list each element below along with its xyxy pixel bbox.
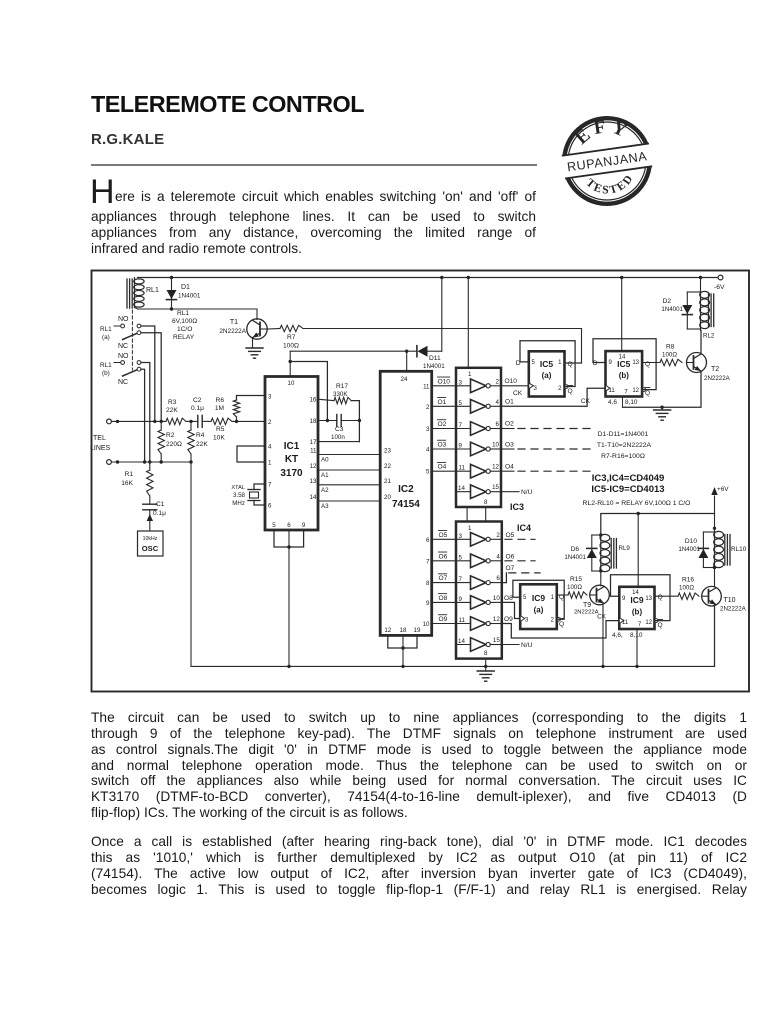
svg-text:100Ω: 100Ω <box>662 352 677 359</box>
svg-text:100Ω: 100Ω <box>283 343 299 350</box>
relay RL10 <box>714 531 747 568</box>
svg-text:OSC: OSC <box>142 544 159 553</box>
label IC9b CK <box>597 613 607 620</box>
wire IC5b pin7 to ground <box>623 406 664 409</box>
label IC9a Qbar <box>559 619 564 629</box>
svg-text:7: 7 <box>459 422 463 429</box>
svg-text:1N4001: 1N4001 <box>423 363 445 370</box>
label IC5b CK <box>581 398 591 405</box>
wire T1 base <box>267 328 280 331</box>
wire IC9a Qbar feedback <box>513 580 564 621</box>
svg-text:4: 4 <box>496 399 500 406</box>
svg-text:O5: O5 <box>439 532 448 539</box>
wire O5 dashed <box>505 532 535 539</box>
wire IC4 N/U <box>502 642 533 649</box>
svg-text:IC4: IC4 <box>517 523 531 533</box>
svg-text:O10: O10 <box>438 378 451 385</box>
capacitor C1 <box>143 501 166 517</box>
svg-text:D1-D11=1N4001: D1-D11=1N4001 <box>598 431 649 438</box>
svg-text:11: 11 <box>459 617 466 624</box>
svg-text:17: 17 <box>310 439 317 446</box>
node -6V terminal <box>714 275 725 291</box>
svg-text:IC3: IC3 <box>510 502 524 512</box>
svg-text:R8: R8 <box>666 344 675 351</box>
svg-text:O7: O7 <box>439 575 448 582</box>
wire IC9b Q to R16 <box>655 595 679 597</box>
svg-text:R15: R15 <box>570 576 582 583</box>
svg-text:R4: R4 <box>196 432 205 439</box>
svg-text:7: 7 <box>459 576 463 583</box>
wire bottom common <box>191 462 715 668</box>
svg-text:10K: 10K <box>213 435 225 442</box>
svg-text:2: 2 <box>426 404 430 411</box>
wire IC9b pin7 to bottom <box>635 629 638 668</box>
svg-text:O9: O9 <box>504 616 513 623</box>
svg-text:13: 13 <box>632 360 639 366</box>
wire IC9a Q to R15 <box>557 594 568 596</box>
wire IC1 pins 4-1 strap <box>237 446 265 462</box>
relay RL1 coil <box>127 278 159 310</box>
svg-text:0.1μ: 0.1μ <box>153 510 166 517</box>
inverter bank IC3 <box>456 368 501 507</box>
wire T2 emitter <box>662 372 701 408</box>
label IC9b Qbar <box>658 620 663 630</box>
svg-text:XTAL: XTAL <box>231 485 245 491</box>
svg-text:MHz: MHz <box>232 500 245 507</box>
label IC9b pins 4,6 8,10 <box>612 632 643 639</box>
svg-text:3: 3 <box>426 426 430 433</box>
wire O6 dashed <box>505 554 535 561</box>
svg-text:O6: O6 <box>506 554 515 561</box>
svg-text:D11: D11 <box>429 355 441 362</box>
svg-text:0.1μ: 0.1μ <box>191 405 204 412</box>
svg-text:R5: R5 <box>216 426 225 433</box>
resistor R4 <box>188 421 209 463</box>
svg-text:12: 12 <box>492 464 499 471</box>
wires IC2 to IC3 (O10..O4 bar) <box>423 377 456 476</box>
svg-text:T9: T9 <box>583 602 591 609</box>
svg-text:9: 9 <box>426 600 430 607</box>
svg-text:9: 9 <box>459 443 463 450</box>
svg-text:14: 14 <box>632 590 639 596</box>
wire T9 collector <box>600 576 602 586</box>
svg-text:R1: R1 <box>125 471 134 478</box>
svg-text:11: 11 <box>423 383 430 390</box>
svg-text:T1: T1 <box>230 319 238 326</box>
svg-text:11: 11 <box>459 465 466 472</box>
wire A3 <box>318 494 391 510</box>
svg-text:RL1: RL1 <box>177 310 189 317</box>
svg-text:R3: R3 <box>168 399 177 406</box>
transistor T9 <box>574 585 609 615</box>
svg-text:16: 16 <box>310 397 317 404</box>
svg-text:220Ω: 220Ω <box>166 441 182 448</box>
svg-text:1N4001: 1N4001 <box>678 546 700 553</box>
svg-text:2: 2 <box>268 419 272 426</box>
svg-text:O3: O3 <box>505 442 514 449</box>
svg-text:1: 1 <box>268 460 272 467</box>
svg-text:24: 24 <box>401 376 408 383</box>
svg-text:16K: 16K <box>121 480 133 487</box>
svg-text:3.58: 3.58 <box>233 492 246 499</box>
resistor R15 <box>567 576 587 598</box>
label IC9b Q <box>658 594 663 601</box>
svg-text:Q: Q <box>645 390 650 397</box>
wire R7 to IC5a Q <box>303 329 582 364</box>
contact RL1(a) <box>114 324 141 339</box>
wire T9 emitter <box>601 604 604 669</box>
resistor R16 <box>678 577 699 600</box>
svg-text:RL1: RL1 <box>100 362 112 369</box>
label NC b <box>118 379 128 386</box>
svg-text:1: 1 <box>468 525 472 532</box>
svg-text:N/U: N/U <box>521 489 533 496</box>
wire A2 <box>318 478 391 494</box>
node TEL line 2 <box>107 460 191 465</box>
svg-text:IC5: IC5 <box>617 359 631 369</box>
svg-text:12: 12 <box>645 620 652 626</box>
svg-text:NO: NO <box>118 353 129 360</box>
wire IC2 bottom strap <box>388 635 417 668</box>
EFY RUPANJANA TESTED stamp <box>556 110 658 212</box>
svg-text:1: 1 <box>468 371 472 378</box>
svg-text:1N4001: 1N4001 <box>564 554 586 561</box>
wire IC3-IC4 straps <box>467 507 486 522</box>
svg-text:RL1: RL1 <box>100 326 112 333</box>
svg-text:5: 5 <box>426 469 430 476</box>
svg-text:74154: 74154 <box>392 499 420 510</box>
svg-text:8: 8 <box>484 499 488 506</box>
relay RL1 actuator dashed line <box>131 310 133 370</box>
resistor R7 <box>280 325 303 349</box>
note IC types <box>591 473 664 495</box>
wire O8 to IC9a CK <box>502 595 520 619</box>
resistor R2 <box>158 420 182 464</box>
svg-text:100n: 100n <box>331 434 345 441</box>
svg-text:4: 4 <box>496 553 500 560</box>
wire top -6V rail <box>138 276 719 279</box>
wire +6V to IC9b pin14 <box>637 514 639 587</box>
svg-text:O2: O2 <box>505 421 514 428</box>
ground main <box>477 671 494 681</box>
svg-text:8: 8 <box>426 580 430 587</box>
wire IC5b pin14 to rail <box>621 278 623 352</box>
svg-text:CK: CK <box>581 398 591 405</box>
svg-text:2: 2 <box>496 378 500 385</box>
wire RL1(b) NO <box>141 363 152 464</box>
label IC3 <box>510 502 524 512</box>
svg-text:3: 3 <box>268 394 272 401</box>
svg-text:LINES: LINES <box>90 445 111 452</box>
svg-text:O10: O10 <box>505 378 518 385</box>
svg-text:20: 20 <box>384 494 391 501</box>
capacitor C3 <box>318 415 359 442</box>
label RL1(a) <box>100 326 112 341</box>
wire RL9 to +6V <box>601 512 715 535</box>
wire IC3 Vdd pin1 <box>467 278 469 368</box>
svg-text:Q: Q <box>559 621 564 628</box>
svg-text:R7: R7 <box>287 334 296 341</box>
resistor R1 <box>121 462 153 503</box>
flip-flop IC9(b) <box>619 587 654 629</box>
wire O1 to IC5b CK <box>501 388 606 406</box>
svg-text:C2: C2 <box>193 397 202 404</box>
relay RL9 <box>600 534 630 572</box>
note equivalences <box>597 431 652 460</box>
contact RL1(b) <box>114 361 141 376</box>
transistor T10 <box>702 586 747 612</box>
svg-text:1N4001: 1N4001 <box>661 306 683 313</box>
wire R17 right <box>351 401 361 442</box>
svg-text:18: 18 <box>400 627 407 634</box>
svg-text:T2: T2 <box>711 366 719 373</box>
svg-text:2N2222A: 2N2222A <box>219 328 246 335</box>
svg-text:14: 14 <box>458 485 465 492</box>
wire O10 to IC5a CK <box>501 378 529 397</box>
label NO b <box>118 353 129 360</box>
wire O9 to IC9b CK <box>502 616 620 638</box>
svg-text:O9: O9 <box>439 616 448 623</box>
diode D2 <box>661 292 700 331</box>
wire VDD to IC2 pin24 <box>406 351 408 371</box>
svg-text:CK: CK <box>597 613 607 620</box>
svg-text:14: 14 <box>310 494 317 501</box>
diode D6 <box>564 533 602 576</box>
flip-flop IC5(a) <box>516 351 565 396</box>
wires IC2 to IC4 (O5..O9 bar) <box>423 531 456 628</box>
label NC a <box>118 343 128 350</box>
diode D11 <box>407 346 446 370</box>
svg-text:23: 23 <box>384 448 391 455</box>
svg-text:NC: NC <box>118 343 128 350</box>
svg-text:14: 14 <box>458 638 465 645</box>
resistor R5 <box>211 418 232 441</box>
svg-text:13: 13 <box>310 478 317 485</box>
wire IC5a Q out <box>565 362 582 364</box>
svg-text:IC9: IC9 <box>532 593 546 603</box>
svg-text:(a): (a) <box>542 371 552 380</box>
label NO a <box>118 316 129 323</box>
svg-text:+6V: +6V <box>717 486 729 493</box>
svg-text:RL2-RL10 = RELAY 6V,100Ω 1 C/O: RL2-RL10 = RELAY 6V,100Ω 1 C/O <box>583 500 691 507</box>
resistor R8 <box>660 344 682 366</box>
flip-flop IC9(a) <box>520 584 557 629</box>
svg-text:IC9: IC9 <box>630 595 644 605</box>
svg-text:2N2222A: 2N2222A <box>704 375 731 382</box>
svg-text:T10: T10 <box>724 597 736 604</box>
svg-text:KT: KT <box>285 454 298 465</box>
svg-text:NO: NO <box>118 316 129 323</box>
svg-text:100Ω: 100Ω <box>567 584 582 591</box>
svg-text:8: 8 <box>484 650 488 657</box>
svg-text:5: 5 <box>272 522 276 529</box>
svg-text:O1: O1 <box>505 399 514 406</box>
svg-text:O2: O2 <box>438 421 447 428</box>
svg-text:18: 18 <box>310 418 317 425</box>
wire O4 dashed <box>501 464 596 472</box>
svg-text:2N2222A: 2N2222A <box>720 606 747 613</box>
svg-text:14: 14 <box>619 355 626 361</box>
svg-text:IC5-IC9=CD4013: IC5-IC9=CD4013 <box>591 484 664 495</box>
svg-text:21: 21 <box>384 478 391 485</box>
svg-text:12: 12 <box>493 616 500 623</box>
resistor R6 <box>215 396 265 422</box>
wire RL1(a) NO <box>141 326 157 423</box>
svg-text:R7-R16=100Ω: R7-R16=100Ω <box>601 453 645 460</box>
svg-text:C1: C1 <box>156 501 165 508</box>
wire IC5b Qbar feedback <box>593 339 656 392</box>
svg-text:IC2: IC2 <box>398 484 414 495</box>
wire RL1(a) pole <box>141 333 161 422</box>
rule <box>91 164 537 166</box>
svg-text:1C/O: 1C/O <box>177 326 192 333</box>
IC1 right pin labels <box>310 397 317 502</box>
title <box>91 91 364 118</box>
svg-text:-6V: -6V <box>714 284 725 291</box>
wire RL1 bottom to D1/T1 <box>138 307 257 319</box>
wire R5 to IC1 pin2 <box>232 420 265 423</box>
svg-text:22K: 22K <box>166 407 178 414</box>
svg-text:A2: A2 <box>321 487 329 494</box>
op-amp IC2 74154 box <box>380 371 432 635</box>
wire IC9b Qbar feedback <box>611 575 671 623</box>
svg-text:3: 3 <box>459 533 463 540</box>
transistor T2 <box>687 353 731 383</box>
svg-text:O4: O4 <box>438 464 447 471</box>
svg-text:A0: A0 <box>321 457 329 464</box>
svg-text:RL10: RL10 <box>731 546 747 553</box>
svg-text:8,10: 8,10 <box>630 632 643 639</box>
wire IC5a Qbar feedback <box>520 341 575 389</box>
capacitor C2 <box>191 397 204 427</box>
label RL1(b) <box>100 362 112 377</box>
wire IC3 N/U <box>501 489 533 496</box>
label IC9a Q <box>559 594 564 601</box>
IC2 bottom pin labels <box>384 627 421 634</box>
ground T1 <box>246 338 263 359</box>
oscillator OSC box <box>138 531 164 556</box>
wire C2 to R5 <box>202 420 211 422</box>
svg-text:330K: 330K <box>333 391 348 398</box>
schematic frame <box>92 271 750 692</box>
label IC5b Qbar <box>645 388 650 398</box>
svg-text:100Ω: 100Ω <box>679 585 694 592</box>
wire O7 dashed <box>502 565 540 583</box>
wire IC5b Q to R8 <box>642 362 660 364</box>
svg-text:R16: R16 <box>682 577 694 584</box>
label IC5a Q <box>568 361 573 368</box>
note relay types <box>583 500 691 507</box>
relay RL2 <box>700 278 715 340</box>
svg-text:3170: 3170 <box>280 468 303 479</box>
wire IC1 bottom strap <box>274 530 304 668</box>
svg-text:11: 11 <box>310 448 317 455</box>
svg-text:Q: Q <box>568 361 573 368</box>
svg-text:5: 5 <box>459 554 463 561</box>
node +6V terminal <box>711 486 729 528</box>
svg-text:(b): (b) <box>619 371 630 380</box>
wire A0 <box>318 448 391 464</box>
svg-text:5: 5 <box>459 400 463 407</box>
wire O3 dashed <box>501 442 596 450</box>
flip-flop IC5(b) <box>593 351 642 396</box>
svg-text:1M: 1M <box>215 405 224 412</box>
svg-text:4: 4 <box>426 447 430 454</box>
svg-text:19: 19 <box>414 627 421 634</box>
resistor R17 <box>318 383 351 404</box>
wire T2 collector <box>700 331 702 355</box>
svg-text:Q: Q <box>658 622 663 629</box>
svg-text:A1: A1 <box>321 472 329 479</box>
svg-text:R6: R6 <box>216 397 225 404</box>
svg-text:O4: O4 <box>505 464 514 471</box>
svg-text:RELAY: RELAY <box>173 334 195 341</box>
svg-text:Q: Q <box>658 594 663 601</box>
svg-text:IC3,IC4=CD4049: IC3,IC4=CD4049 <box>592 473 665 484</box>
inverter bank IC4 <box>456 522 502 659</box>
svg-text:R17: R17 <box>336 383 348 390</box>
svg-text:RL1: RL1 <box>146 287 159 294</box>
label IC5b pins 4,6 8,10 <box>608 397 638 408</box>
wire A1 <box>318 463 391 479</box>
wire R3 to C2 <box>186 420 198 423</box>
svg-text:(a): (a) <box>102 334 110 341</box>
svg-text:10: 10 <box>423 621 430 628</box>
svg-text:O5: O5 <box>506 532 515 539</box>
svg-text:O3: O3 <box>438 442 447 449</box>
svg-text:A3: A3 <box>321 503 329 510</box>
wire IC4 pin8 to ground <box>485 659 487 670</box>
svg-text:D6: D6 <box>571 546 580 553</box>
svg-text:RL9: RL9 <box>619 545 631 552</box>
svg-text:T1-T10=2N2222A: T1-T10=2N2222A <box>597 442 652 449</box>
wire VDD to IC1 pin18 node <box>290 362 329 423</box>
svg-text:O6: O6 <box>439 553 448 560</box>
label RL1 relay spec <box>172 310 197 341</box>
intro paragraph <box>90 173 115 212</box>
wire D11 anode to rail <box>441 278 443 352</box>
svg-text:12: 12 <box>310 463 317 470</box>
svg-text:O7: O7 <box>506 565 515 572</box>
node TEL line 1 <box>107 419 166 424</box>
svg-text:22: 22 <box>384 463 391 470</box>
diode D10 <box>678 527 716 570</box>
svg-text:6: 6 <box>287 522 291 529</box>
svg-text:4: 4 <box>268 444 272 451</box>
svg-text:Q: Q <box>568 388 573 395</box>
svg-text:9: 9 <box>459 596 463 603</box>
svg-text:15: 15 <box>492 484 499 491</box>
svg-text:O8: O8 <box>439 595 448 602</box>
svg-text:8,10: 8,10 <box>625 399 638 406</box>
IC1 bottom pin labels <box>272 522 306 529</box>
svg-text:IC1: IC1 <box>284 441 300 452</box>
svg-text:R2: R2 <box>166 432 175 439</box>
svg-text:7: 7 <box>268 482 272 489</box>
svg-text:10: 10 <box>288 380 295 387</box>
label IC4 <box>517 523 531 533</box>
label IC5b Q <box>645 361 650 368</box>
wire C3 to IC1 pin17 <box>318 441 359 443</box>
svg-text:22K: 22K <box>196 441 208 448</box>
svg-text:2: 2 <box>496 532 500 539</box>
svg-text:D10: D10 <box>685 538 697 545</box>
svg-text:9: 9 <box>302 522 306 529</box>
svg-text:6: 6 <box>426 537 430 544</box>
svg-text:2N2222A: 2N2222A <box>574 610 599 616</box>
resistor R3 <box>166 399 186 425</box>
svg-text:6V,100Ω: 6V,100Ω <box>172 318 197 325</box>
